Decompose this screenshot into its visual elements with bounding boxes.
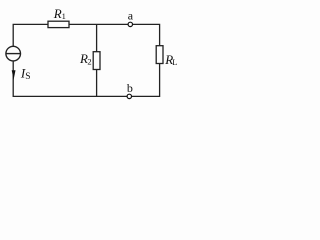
svg-text:L: L: [172, 57, 177, 67]
wire middle branch R2 bottom: [96, 70, 98, 97]
node a terminal: [128, 22, 132, 26]
svg-text:2: 2: [87, 56, 91, 66]
wire right: RL bottom to bottom-right corner: [132, 64, 160, 97]
current source IS: [6, 46, 21, 61]
current arrow of IS: [12, 70, 16, 80]
wire top: node a to right corner: [133, 24, 160, 45]
svg-text:1: 1: [62, 11, 66, 21]
wire top: left corner to R1: [13, 24, 48, 46]
wire bottom: node b to left corner: [13, 61, 127, 96]
node b terminal: [127, 94, 131, 98]
resistor R2: [93, 52, 100, 70]
wire middle branch R2 top: [96, 24, 98, 51]
resistor RL: [156, 46, 163, 64]
svg-text:a: a: [128, 9, 134, 23]
svg-text:S: S: [25, 72, 30, 82]
svg-text:b: b: [127, 81, 133, 95]
resistor R1: [48, 21, 69, 27]
svg-text:R: R: [53, 6, 62, 21]
wire top: R1 to node a: [69, 23, 128, 25]
